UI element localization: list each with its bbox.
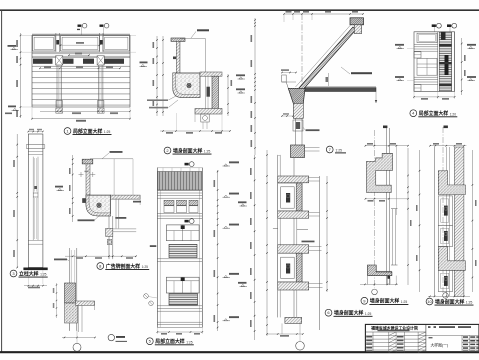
svg-text:1:25: 1:25 <box>142 265 149 269</box>
svg-text:墙身剖面大样: 墙身剖面大样 <box>370 298 399 305</box>
svg-text:立柱大样: 立柱大样 <box>19 270 39 277</box>
svg-text:1:25: 1:25 <box>336 148 343 152</box>
svg-text:局部立面大样: 局部立面大样 <box>155 338 184 345</box>
svg-text:墙身剖面大样: 墙身剖面大样 <box>334 310 363 317</box>
svg-text:大样图(一): 大样图(一) <box>431 342 449 347</box>
svg-text:1:25: 1:25 <box>365 312 372 316</box>
svg-text:1:20: 1:20 <box>450 112 457 116</box>
svg-text:墙身剖面大样: 墙身剖面大样 <box>435 298 464 305</box>
svg-text:广告牌剖面大样: 广告牌剖面大样 <box>106 263 140 270</box>
svg-text:局部立面大样: 局部立面大样 <box>419 110 448 117</box>
svg-text:1:25: 1:25 <box>401 300 408 304</box>
svg-text:1:25: 1:25 <box>204 150 211 154</box>
svg-text:局部立面大样: 局部立面大样 <box>73 128 102 135</box>
svg-text:10: 10 <box>427 299 432 304</box>
svg-text:墙身剖面大样: 墙身剖面大样 <box>173 147 202 154</box>
svg-text:1:25: 1:25 <box>40 273 47 277</box>
svg-text:1:25: 1:25 <box>186 340 193 344</box>
svg-text:1:25: 1:25 <box>466 301 473 305</box>
svg-text:1:25: 1:25 <box>104 130 111 134</box>
